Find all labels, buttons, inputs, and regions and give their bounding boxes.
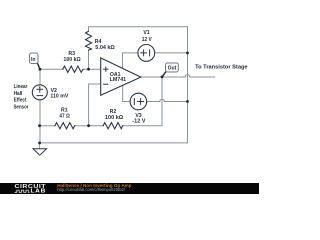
wire hop over right rail at output (185, 75, 190, 77)
junction V2 R1 node (38, 124, 41, 127)
svg-text:12 V: 12 V (142, 37, 153, 43)
voltage source V2 (32, 85, 47, 100)
svg-text:LAB: LAB (31, 189, 47, 194)
svg-text:Effect: Effect (14, 98, 27, 104)
op-amp + input marker (104, 67, 108, 71)
junction ground node (38, 142, 41, 145)
wire R1 right to R2 left (75, 125, 103, 127)
wire bottom ground rail (40, 142, 188, 144)
ground (33, 149, 47, 156)
svg-text:100 kΩ: 100 kΩ (64, 57, 81, 63)
svg-text:Sensor: Sensor (14, 104, 29, 110)
V1 plus marker (141, 50, 147, 56)
V2 plus marker (37, 86, 43, 92)
footer logo waveform (15, 190, 30, 192)
svg-text:110 mV: 110 mV (50, 94, 68, 100)
wire V3 negative lead to op-amp V- pin (123, 85, 130, 101)
svg-text:V1: V1 (143, 30, 149, 36)
junction input node (39, 68, 42, 71)
svg-text:In: In (31, 57, 35, 63)
junction V1 rail node (186, 52, 189, 55)
voltage source V3 (130, 93, 147, 110)
wire R4 bottom lead (88, 50, 90, 69)
V3 plus marker (138, 99, 144, 105)
wire ground stub (39, 143, 41, 149)
resistor R4 (86, 31, 92, 50)
wire V3 positive lead toward right rail (147, 101, 160, 103)
V1 bar marker (149, 50, 151, 56)
resistor R2 (103, 123, 123, 129)
wire V1 positive lead to op-amp V+ pin (123, 53, 138, 68)
wire R3 to op-amp + input (83, 68, 101, 70)
V3 bar marker (133, 99, 135, 105)
svg-text:Hall: Hall (14, 91, 23, 97)
wire R2 right to feedback corner (123, 77, 162, 126)
wire input vertical to V2 top (39, 69, 41, 84)
svg-text:100 kΩ: 100 kΩ (105, 115, 123, 121)
resistor R3 (63, 66, 83, 72)
wire top rail from R4 top to right rail (89, 27, 188, 32)
wire right rail vertical (187, 27, 189, 143)
svg-text:Linear: Linear (14, 84, 28, 90)
wire V2 bottom to ground node (39, 100, 41, 143)
note Linear Hall Effect Sensor (14, 84, 29, 110)
svg-text:LM741: LM741 (110, 77, 127, 83)
wire input node horizontal to R3 (40, 68, 63, 70)
svg-text:R1: R1 (61, 107, 68, 113)
wire R1 left lead (40, 125, 55, 127)
wire inverting input vertical (89, 84, 101, 126)
footer bar (0, 183, 259, 194)
wire hop over feedback at V3 (160, 99, 165, 101)
svg-text:To Transistor Stage: To Transistor Stage (195, 65, 248, 71)
junction R1 R2 inverting node (87, 124, 90, 127)
node In flag (30, 53, 41, 69)
op-amp OA1 (101, 58, 141, 95)
junction V3 rail node (186, 100, 189, 103)
svg-text:R2: R2 (110, 109, 117, 115)
svg-text:Out: Out (168, 66, 177, 72)
junction R4 bottom node (87, 68, 90, 71)
wire output to transistor stage (190, 76, 215, 78)
voltage source V1 (138, 45, 155, 62)
V2 minus marker (37, 95, 43, 97)
resistor R1 (55, 123, 75, 129)
wire V3 hop to right rail (164, 101, 187, 103)
wire op-amp output to Out node (141, 76, 185, 78)
node Out flag (162, 63, 178, 77)
junction output node (161, 76, 164, 79)
svg-text:47 Ω: 47 Ω (59, 114, 69, 120)
wire V1 negative lead to right rail (155, 52, 188, 54)
svg-text:http://circuitlab.com/c/8wmpu6: http://circuitlab.com/c/8wmpu62t6b2/ (57, 187, 126, 192)
svg-text:-12 V: -12 V (132, 119, 146, 125)
svg-text:5.04 kΩ: 5.04 kΩ (95, 45, 115, 51)
op-amp - input marker (104, 83, 108, 85)
